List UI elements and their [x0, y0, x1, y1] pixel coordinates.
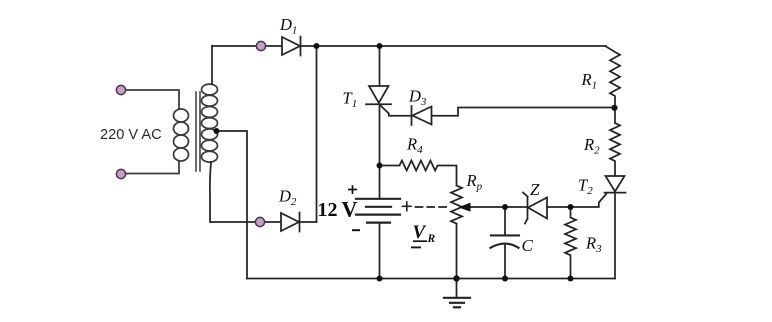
wire: D1 cathode to junction — [301, 45, 317, 47]
wire: D3 anode to R1-R2 junction — [432, 108, 616, 116]
wire: zener to R3 junction — [547, 206, 571, 208]
svg-text:C: C — [522, 236, 534, 255]
wire: center tap lead — [217, 131, 248, 279]
wire: R1-R2 junction to R2 — [614, 108, 616, 123]
resistor R2 — [610, 123, 620, 176]
node: R3 bottom on rail — [568, 276, 574, 282]
node: D1-D2 cathode junction — [314, 43, 320, 49]
wire: T1 gate lead — [381, 106, 412, 116]
node: R4 tap on T1 cathode — [377, 163, 383, 169]
node: Z-R3-gate junction — [568, 204, 574, 210]
dashed line to wiper — [416, 206, 448, 208]
wire: top rail right run — [380, 45, 607, 47]
node: transformer center tap — [214, 128, 220, 134]
wiper arrow wire — [470, 206, 506, 208]
wire: bottom rail — [247, 278, 615, 280]
svg-text:12: 12 — [318, 199, 338, 221]
transformer primary winding — [174, 109, 189, 161]
wire: secondary bottom to D2 — [211, 221, 281, 223]
node: wiper-C-Z junction — [502, 204, 508, 210]
node: ground junction — [453, 275, 459, 281]
zener diode Z — [523, 193, 547, 224]
resistor R3 — [565, 207, 576, 279]
capacitor C plates — [491, 235, 520, 247]
wire: Rp bottom lead — [456, 224, 458, 279]
wire: secondary bottom lead — [210, 162, 211, 222]
node: C bottom on rail — [502, 276, 508, 282]
wire: T1 cathode down to battery — [379, 104, 381, 199]
plus sign at wiper line — [403, 202, 412, 211]
svg-text:Z: Z — [530, 180, 540, 199]
wire: battery negative to bottom rail — [379, 223, 381, 279]
svg-text:V: V — [413, 222, 427, 243]
wire: secondary top lead to top rail — [211, 46, 213, 84]
potentiometer Rp body — [451, 186, 462, 224]
svg-text:V: V — [342, 197, 358, 222]
wire: top rail middle — [317, 45, 380, 47]
ground — [456, 279, 458, 297]
transformer core — [196, 92, 200, 171]
terminal: D1 anode — [256, 41, 265, 50]
wire: rectifier output vertical (D1-D2 cathodes) — [316, 46, 318, 222]
wire: primary top lead — [121, 90, 179, 109]
svg-text:220 V AC: 220 V AC — [100, 127, 162, 143]
wire: T1 anode lead — [379, 46, 381, 86]
node: R1-R2 junction — [611, 105, 617, 111]
svg-text:R: R — [427, 233, 436, 245]
terminal: D2 anode — [255, 217, 264, 226]
thyristor T2 — [605, 176, 626, 193]
node: battery bottom on rail — [377, 276, 383, 282]
resistor R4 — [380, 161, 457, 186]
wiper arrowhead — [459, 203, 471, 212]
diode D1 — [282, 37, 301, 56]
wire: top rail left segment to D1 — [212, 45, 282, 47]
wire: gate wire to T2 — [571, 194, 607, 207]
battery 12V plates — [356, 199, 400, 223]
battery minus — [352, 229, 360, 231]
wire: D2 cathode up to junction — [300, 221, 317, 223]
wire: junction to zener — [505, 206, 527, 208]
label VR minus — [411, 246, 421, 248]
capacitor C top lead — [504, 207, 506, 235]
resistor R1 — [606, 47, 620, 109]
capacitor C bottom lead — [504, 245, 506, 279]
node: T1 anode on top rail — [377, 43, 383, 49]
thyristor T1 — [366, 86, 391, 104]
wire: primary bottom lead — [121, 161, 179, 174]
terminal: primary bottom — [116, 169, 125, 178]
wire: T2 cathode to bottom rail — [614, 193, 616, 279]
battery plus — [348, 185, 357, 194]
diode D2 — [281, 213, 300, 232]
transformer secondary winding — [202, 84, 218, 162]
terminal: primary top — [116, 85, 125, 94]
diode D3 — [412, 106, 432, 125]
